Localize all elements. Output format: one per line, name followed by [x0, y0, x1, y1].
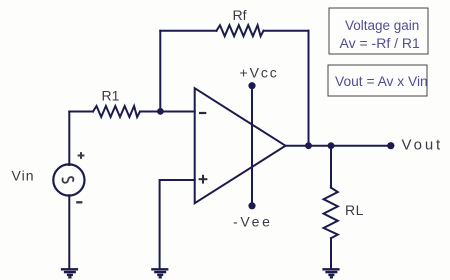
wire source bottom	[68, 195, 70, 268]
terminal dot -Vee	[248, 202, 255, 209]
source minus mark	[76, 201, 82, 203]
terminal dot Vout	[387, 142, 394, 149]
svg-text:Vout = Av x Vin: Vout = Av x Vin	[335, 74, 428, 89]
junction dot RL node	[328, 142, 335, 149]
svg-text:Voltage gain: Voltage gain	[345, 18, 419, 33]
svg-text:Rf: Rf	[233, 7, 247, 23]
source Vin circle	[53, 164, 84, 195]
wire Vin node to R1	[69, 111, 93, 113]
wire RL bottom	[330, 238, 332, 268]
svg-text:+Vcc: +Vcc	[240, 64, 279, 80]
annotation box vout formula	[328, 65, 427, 96]
annotation box voltage gain	[329, 8, 428, 54]
ground at source	[61, 269, 78, 277]
source plus mark	[78, 152, 85, 159]
svg-text:R1: R1	[102, 87, 120, 103]
svg-text:Vin: Vin	[12, 168, 35, 184]
op-amp plus mark	[199, 175, 208, 184]
wire source top	[68, 112, 70, 166]
wire non-inverting input	[160, 180, 195, 268]
wire feedback top-left horizontal	[160, 30, 216, 32]
svg-text:Vout: Vout	[402, 137, 444, 154]
op-amp U1 triangle	[195, 88, 286, 203]
ground at RL	[322, 269, 339, 277]
resistor RL	[324, 188, 338, 239]
op-amp power rail vertical	[251, 86, 253, 206]
wire RL top	[330, 146, 332, 188]
resistor R1	[93, 106, 140, 117]
wire R1 to op-amp inverting input	[140, 111, 195, 113]
svg-text:Av = -Rf / R1: Av = -Rf / R1	[340, 35, 420, 51]
wire feedback left vertical	[159, 31, 161, 112]
source sine symbol	[62, 177, 73, 183]
svg-text:RL: RL	[345, 202, 364, 218]
wire feedback top-right horizontal	[264, 30, 309, 32]
ground at non-inverting input	[151, 269, 168, 277]
wire feedback right vertical	[308, 31, 310, 146]
resistor Rf	[217, 25, 264, 36]
op-amp minus mark	[199, 112, 206, 114]
svg-text:-Vee: -Vee	[233, 214, 273, 230]
terminal dot +Vcc	[248, 82, 255, 89]
junction dot inverting node	[157, 108, 164, 115]
junction dot feedback/output	[305, 142, 312, 149]
wire output	[286, 145, 391, 147]
